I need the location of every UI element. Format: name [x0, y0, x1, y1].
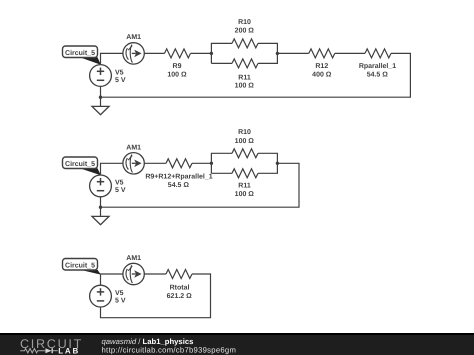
CircuitLab logo resistor symbol [20, 349, 45, 353]
resistor Rparallel_1 [359, 49, 396, 79]
wire V5 bottom to ground (top) [100, 86, 102, 106]
ammeter AM1 (bottom) [123, 255, 144, 285]
wire V5 top to AM1 (middle) [101, 163, 123, 175]
wire node B to R12 [277, 52, 308, 54]
wire R9 to parallel node (top) [191, 52, 212, 54]
svg-text:100 Ω: 100 Ω [235, 83, 255, 90]
wire middle circuit return loop [101, 163, 300, 207]
node E (middle parallel right junction) [276, 162, 279, 165]
svg-text:R9+R12+Rparallel_1: R9+R12+Rparallel_1 [145, 173, 212, 181]
wire AM1 to Rtotal [144, 273, 166, 275]
ground (top) [92, 106, 109, 114]
CircuitLab logo diode symbol [45, 348, 57, 353]
resistor R12 [309, 49, 335, 79]
svg-text:100 Ω: 100 Ω [235, 191, 255, 198]
resistor R10 (top circuit) [232, 19, 258, 48]
resistor R9 [165, 49, 191, 79]
svg-text:400 Ω: 400 Ω [312, 71, 332, 78]
svg-text:54.5 Ω: 54.5 Ω [367, 71, 389, 78]
flag Circuit_5 (middle) [63, 157, 101, 175]
resistor Rtotal [166, 270, 192, 300]
resistor R10 (middle circuit) [232, 129, 258, 158]
svg-text:R9: R9 [173, 63, 182, 70]
resistor R9+R12+Rparallel_1 [145, 159, 212, 189]
ground (middle) [92, 216, 109, 224]
wire bottom circuit return loop [101, 274, 211, 318]
footer bar background [0, 333, 474, 355]
svg-text:R11: R11 [238, 182, 251, 189]
svg-text:V5: V5 [115, 180, 124, 187]
wire parallel box bottom-left lead (top) [211, 62, 232, 64]
resistor R11 (top circuit) [232, 59, 258, 90]
wire R12 to Rparallel_1 [335, 52, 365, 54]
wire V5 top to AM1 (top) [101, 53, 123, 64]
svg-text:Rtotal: Rtotal [170, 283, 190, 291]
svg-text:R11: R11 [238, 75, 251, 82]
voltage source V5 (bottom) [90, 285, 126, 307]
svg-text:LAB: LAB [58, 346, 80, 355]
svg-text:R10: R10 [238, 129, 251, 136]
node B (top parallel right junction) [276, 52, 279, 55]
wire AM1 to series resistor (middle) [144, 162, 166, 164]
svg-text:R12: R12 [315, 63, 328, 70]
svg-text:V5: V5 [115, 69, 124, 76]
node A (top parallel left junction) [210, 52, 213, 55]
svg-text:621.2 Ω: 621.2 Ω [167, 293, 192, 300]
svg-text:Rparallel_1: Rparallel_1 [359, 62, 396, 70]
ammeter AM1 (top) [123, 34, 144, 64]
svg-text:V5: V5 [115, 290, 124, 297]
svg-text:AM1: AM1 [126, 144, 141, 151]
svg-text:AM1: AM1 [126, 34, 141, 41]
wire parallel box left (top) [211, 43, 232, 63]
svg-text:Circuit_5: Circuit_5 [65, 261, 95, 269]
ammeter AM1 (middle) [123, 144, 144, 174]
flag Circuit_5 (bottom) [63, 259, 101, 275]
svg-text:AM1: AM1 [126, 255, 141, 262]
wire resistor to parallel node (middle) [192, 162, 211, 164]
svg-text:5 V: 5 V [115, 77, 126, 84]
svg-text:200 Ω: 200 Ω [235, 28, 255, 35]
node D (middle parallel left junction) [210, 162, 213, 165]
node C (top ground junction) [99, 96, 102, 99]
voltage source V5 (middle) [90, 175, 126, 197]
svg-text:Circuit_5: Circuit_5 [65, 160, 95, 168]
svg-text:http://circuitlab.com/cb7b939s: http://circuitlab.com/cb7b939spe6gm [102, 345, 237, 354]
wire parallel box right (middle) [258, 153, 277, 173]
wire parallel box right (top) [258, 43, 277, 63]
flag Circuit_5 (top) [63, 46, 101, 65]
svg-text:Circuit_5: Circuit_5 [65, 49, 95, 57]
wire parallel box left (middle) [211, 153, 232, 173]
svg-text:100 Ω: 100 Ω [235, 138, 255, 145]
svg-text:100 Ω: 100 Ω [167, 71, 187, 78]
svg-text:R10: R10 [238, 19, 251, 26]
voltage source V5 (top) [90, 65, 126, 87]
wire AM1 to R9 (top) [144, 52, 164, 54]
resistor R11 (middle circuit) [232, 169, 258, 198]
wire V5 bottom to ground (middle) [100, 197, 102, 217]
wire top circuit return loop [101, 53, 411, 97]
svg-text:5 V: 5 V [115, 297, 126, 304]
node F (middle ground junction) [99, 206, 102, 209]
svg-text:54.5 Ω: 54.5 Ω [168, 182, 190, 189]
wire parallel box bottom-left lead (middle) [211, 172, 232, 174]
wire V5 top to AM1 (bottom) [101, 274, 123, 285]
svg-text:5 V: 5 V [115, 187, 126, 194]
